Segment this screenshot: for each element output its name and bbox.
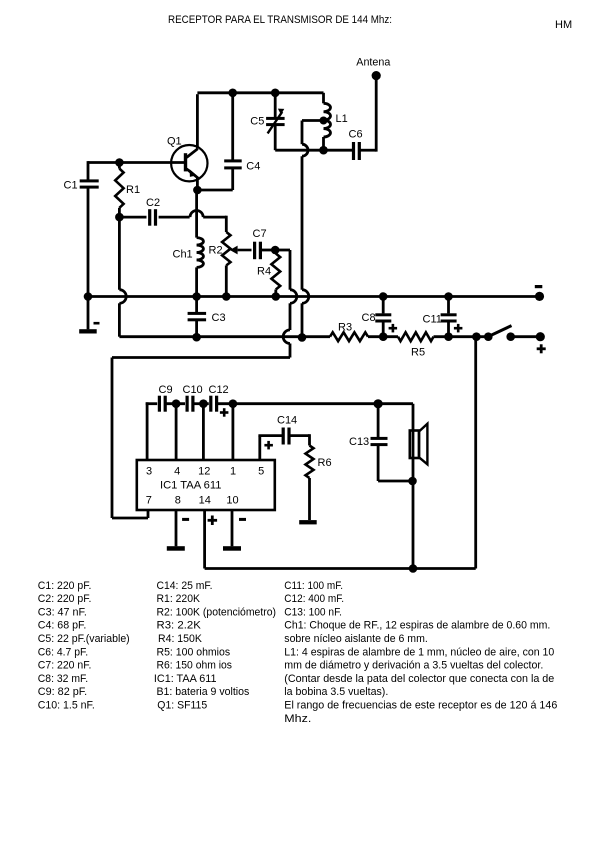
component values column 3 xyxy=(284,580,557,725)
label L1 xyxy=(336,113,348,125)
svg-text:Antena: Antena xyxy=(356,57,391,69)
svg-text:R2: 100K (potenciómetro): R2: 100K (potenciómetro) xyxy=(157,606,277,618)
minus left ground xyxy=(94,322,100,325)
svg-text:C4: 68 pF.: C4: 68 pF. xyxy=(38,620,87,632)
label C1 xyxy=(64,180,78,192)
pin 5 label xyxy=(258,466,264,478)
svg-text:Ch1: Choque de RF., 12 espiras: Ch1: Choque de RF., 12 espiras de alambr… xyxy=(284,620,550,632)
svg-text:R3: R3 xyxy=(338,322,352,334)
svg-text:C1: C1 xyxy=(64,180,78,192)
capacitor C14 xyxy=(282,428,291,445)
pin 1 label xyxy=(230,466,236,478)
wire bus1 (negative rail) xyxy=(88,295,540,298)
resistor R6 xyxy=(306,446,314,521)
wire pin 10 ground xyxy=(223,510,241,551)
svg-text:El rango de frecuencias de est: El rango de frecuencias de este receptor… xyxy=(284,700,557,712)
initials HM xyxy=(555,19,572,31)
capacitor C5 (variable) xyxy=(266,93,285,150)
svg-text:IC1: TAA 611: IC1: TAA 611 xyxy=(154,673,217,685)
component values column 1 xyxy=(38,580,130,712)
svg-text:RECEPTOR PARA EL TRANSMISOR DE: RECEPTOR PARA EL TRANSMISOR DE 144 Mhz: xyxy=(168,14,392,26)
component values column 2 xyxy=(154,580,276,712)
wire row C9-C10 xyxy=(167,402,186,405)
svg-text:C7: 220 nF.: C7: 220 nF. xyxy=(38,660,92,672)
svg-text:B1: bateria 9 voltios: B1: bateria 9 voltios xyxy=(157,686,250,698)
inductor Ch1 xyxy=(197,238,204,297)
node L1 tap xyxy=(320,117,328,125)
svg-text:Q1: SF115: Q1: SF115 xyxy=(157,700,207,712)
svg-text:C12: C12 xyxy=(209,384,229,396)
label Antena xyxy=(356,57,391,69)
pin 8 label xyxy=(175,495,181,507)
label C7 xyxy=(253,228,267,240)
resistor R1 xyxy=(115,163,123,218)
label R3 xyxy=(338,322,352,334)
minus pin 10 xyxy=(239,518,246,521)
label R6 xyxy=(318,457,332,469)
capacitor C7 xyxy=(253,242,275,260)
svg-text:12: 12 xyxy=(198,466,210,478)
antenna terminal xyxy=(372,71,381,80)
plus C14 xyxy=(264,441,273,450)
node speaker bottom junction xyxy=(409,564,418,573)
svg-text:C10: 1.5 nF.: C10: 1.5 nF. xyxy=(38,700,95,712)
switch S1 xyxy=(472,326,545,342)
label C2 xyxy=(146,197,160,209)
capacitor C10 xyxy=(186,396,195,412)
node C11 top xyxy=(444,292,453,301)
capacitor C13 xyxy=(371,404,413,481)
plus C12 xyxy=(220,408,229,417)
wire C2 to R2 xyxy=(190,211,226,233)
svg-text:C2: 220 pF.: C2: 220 pF. xyxy=(38,593,92,605)
node bus2-C3 xyxy=(192,333,201,342)
svg-text:Q1: Q1 xyxy=(167,135,182,147)
minus terminal xyxy=(535,285,543,288)
svg-text:C14: C14 xyxy=(277,415,297,427)
svg-text:L1: L1 xyxy=(336,113,348,125)
label C6 xyxy=(349,129,363,141)
resistor R3 xyxy=(330,332,398,341)
svg-text:L1: 4 espiras de alambre de 1: L1: 4 espiras de alambre de 1 mm, núcleo… xyxy=(284,646,554,658)
label R1 xyxy=(126,184,140,196)
svg-text:C7: C7 xyxy=(253,228,267,240)
capacitor C1 xyxy=(80,161,99,297)
svg-text:7: 7 xyxy=(146,495,152,507)
node bus1-C1 xyxy=(84,292,93,301)
transistor Q1 xyxy=(171,145,207,181)
svg-text:8: 8 xyxy=(175,495,181,507)
wire pin 4 riser xyxy=(175,404,178,460)
node base-R1 junction xyxy=(115,158,124,167)
capacitor C3 xyxy=(188,297,207,338)
wire bus2 right xyxy=(434,335,489,338)
label IC1 TAA 611 xyxy=(160,480,222,492)
pin 12 label xyxy=(198,466,210,478)
node row after C12 xyxy=(229,399,238,408)
resistor R4 xyxy=(271,250,280,297)
label C8 xyxy=(362,312,376,324)
node C13 top xyxy=(374,399,383,408)
wire C14 to R6 xyxy=(290,434,309,445)
ground R6 xyxy=(299,520,317,524)
wire tank rail xyxy=(197,91,323,94)
svg-text:C9: 82 pF.: C9: 82 pF. xyxy=(38,686,87,698)
svg-text:R5: 100 ohmios: R5: 100 ohmios xyxy=(157,646,231,658)
label C13 xyxy=(349,436,369,448)
svg-text:C10: C10 xyxy=(183,384,203,396)
svg-text:C3: C3 xyxy=(212,312,226,324)
wire pin 14 bottom rail xyxy=(205,510,413,569)
svg-text:C13: 100 nF.: C13: 100 nF. xyxy=(284,606,342,618)
wire pin 12 riser xyxy=(202,404,205,460)
node C8 bottom xyxy=(379,332,388,341)
svg-text:3: 3 xyxy=(146,466,152,478)
wire collector riser xyxy=(196,94,199,148)
wire audio to pin7 xyxy=(112,250,297,518)
svg-text:4: 4 xyxy=(174,466,180,478)
svg-text:R4: R4 xyxy=(257,266,271,278)
node row after C10 xyxy=(199,399,208,408)
svg-text:R1: 220K: R1: 220K xyxy=(157,593,201,605)
svg-text:C3: 47 nF.: C3: 47 nF. xyxy=(38,606,87,618)
svg-text:sobre nícleo aislante de 6 mm.: sobre nícleo aislante de 6 mm. xyxy=(284,633,428,645)
svg-text:C12: 400 mF.: C12: 400 mF. xyxy=(284,593,344,605)
svg-text:C2: C2 xyxy=(146,197,160,209)
plus C8 xyxy=(389,324,398,333)
label R4 xyxy=(257,266,271,278)
svg-text:R4: 150K: R4: 150K xyxy=(158,633,203,645)
node C11 bottom xyxy=(444,332,453,341)
capacitor C12 xyxy=(209,396,218,412)
wire L1 tap xyxy=(302,121,324,290)
capacitor C2 xyxy=(119,209,189,226)
svg-text:C9: C9 xyxy=(159,384,173,396)
svg-text:C5: 22 pF.(variable): C5: 22 pF.(variable) xyxy=(38,633,130,645)
speaker LS1 xyxy=(410,404,428,569)
label C4 xyxy=(246,160,260,172)
label C9 xyxy=(159,384,173,396)
svg-text:C4: C4 xyxy=(246,160,260,172)
svg-text:HM: HM xyxy=(555,19,572,31)
node tap-bus2 junction xyxy=(298,333,307,342)
node C7-R4 junction xyxy=(271,246,280,255)
wire bus2 left xyxy=(119,335,330,338)
svg-text:C8: C8 xyxy=(362,312,376,324)
svg-text:la bobina 3.5 vueltas).: la bobina 3.5 vueltas). xyxy=(284,686,388,698)
svg-text:R5: R5 xyxy=(411,347,425,359)
node tank bottom junction xyxy=(319,146,328,155)
node bus1-R4 xyxy=(272,292,281,301)
node emitter junction xyxy=(193,186,202,195)
wire tap hop bus1 xyxy=(302,290,309,337)
label C3 xyxy=(212,312,226,324)
svg-text:R2: R2 xyxy=(209,245,223,257)
wire tank bottom xyxy=(275,149,352,152)
wire pin 8 ground xyxy=(167,510,185,551)
pin 3 label xyxy=(146,466,152,478)
wire R1-column to bus2 xyxy=(119,217,126,337)
label C12 xyxy=(209,384,229,396)
pin 7 label xyxy=(146,495,152,507)
svg-text:R6: 150 ohm ios: R6: 150 ohm ios xyxy=(157,660,233,672)
wire emitter xyxy=(196,178,199,191)
op-amp U1 box (IC1 TAA611) xyxy=(137,460,275,510)
capacitor C9 xyxy=(158,396,167,412)
capacitor C6 xyxy=(352,76,376,160)
label C10 xyxy=(183,384,203,396)
pin 4 label xyxy=(174,466,180,478)
wire pin 1 riser xyxy=(231,404,234,460)
node C8 top xyxy=(379,292,388,301)
plus terminal xyxy=(537,344,546,353)
svg-text:14: 14 xyxy=(199,495,211,507)
label C5 xyxy=(250,116,264,128)
label R2 xyxy=(209,245,223,257)
svg-text:C5: C5 xyxy=(250,116,264,128)
node rail-C4 junction xyxy=(228,89,237,98)
node rail-C5 junction xyxy=(271,89,280,98)
plus C11 xyxy=(454,324,463,333)
resistor R5 xyxy=(398,332,434,341)
label R5 xyxy=(411,347,425,359)
label C14 xyxy=(277,415,297,427)
svg-text:IC1 TAA 611: IC1 TAA 611 xyxy=(160,480,222,492)
resistor R2 (pot) xyxy=(222,232,230,297)
svg-text:5: 5 xyxy=(258,466,264,478)
wire switch to bottom rail xyxy=(413,337,476,569)
wire row to speaker branch xyxy=(218,402,413,405)
node R1-C2 junction xyxy=(115,213,124,222)
node speaker-C13 junction xyxy=(408,477,417,486)
svg-text:mm de diámetro y derivación a: mm de diámetro y derivación a 3.5 vuelta… xyxy=(284,660,543,672)
svg-text:10: 10 xyxy=(226,495,238,507)
wire cap row left corner xyxy=(146,402,158,460)
svg-text:C13: C13 xyxy=(349,436,369,448)
label C11 xyxy=(423,313,442,325)
inductor L1 xyxy=(324,93,331,150)
node bus1-Ch1 xyxy=(192,292,201,301)
pin 10 label xyxy=(226,495,238,507)
capacitor C4 xyxy=(224,93,242,190)
svg-text:Ch1: Ch1 xyxy=(173,249,193,261)
svg-text:C11: C11 xyxy=(423,313,442,325)
svg-text:C14: 25 mF.: C14: 25 mF. xyxy=(157,580,213,592)
minus pin 8 xyxy=(182,518,189,521)
plus pin 14 xyxy=(208,516,218,526)
svg-text:C1: 220 pF.: C1: 220 pF. xyxy=(38,580,92,592)
svg-text:C6: C6 xyxy=(349,129,363,141)
node row after C9 xyxy=(172,399,181,408)
pin 14 label xyxy=(199,495,211,507)
label Q1 xyxy=(167,135,182,147)
svg-text:C11: 100 mF.: C11: 100 mF. xyxy=(284,580,343,592)
capacitor C8 xyxy=(375,297,391,337)
wire pin 5 riser xyxy=(258,436,282,460)
wire base xyxy=(88,161,185,164)
label Ch1 xyxy=(173,249,193,261)
svg-text:C6: 4.7 pF.: C6: 4.7 pF. xyxy=(38,646,88,658)
svg-text:R1: R1 xyxy=(126,184,140,196)
svg-text:R3: 2.2K: R3: 2.2K xyxy=(157,620,202,632)
svg-text:C8: 32 mF.: C8: 32 mF. xyxy=(38,673,88,685)
wire row C10-C12 xyxy=(194,402,209,405)
title text xyxy=(168,14,392,26)
node bus1-R2 xyxy=(222,292,231,301)
svg-text:Mhz.: Mhz. xyxy=(284,713,311,725)
wiper arrow R2 xyxy=(230,246,252,255)
wire emitter junction to C4 xyxy=(197,189,232,192)
svg-text:R6: R6 xyxy=(318,457,332,469)
terminal negative xyxy=(535,292,544,301)
svg-text:(Contar desde la pata del cole: (Contar desde la pata del colector que c… xyxy=(284,673,554,685)
wire emitter down to Ch1 xyxy=(195,190,198,238)
svg-text:1: 1 xyxy=(230,466,236,478)
capacitor C11 xyxy=(441,297,457,337)
ground left xyxy=(79,297,97,334)
